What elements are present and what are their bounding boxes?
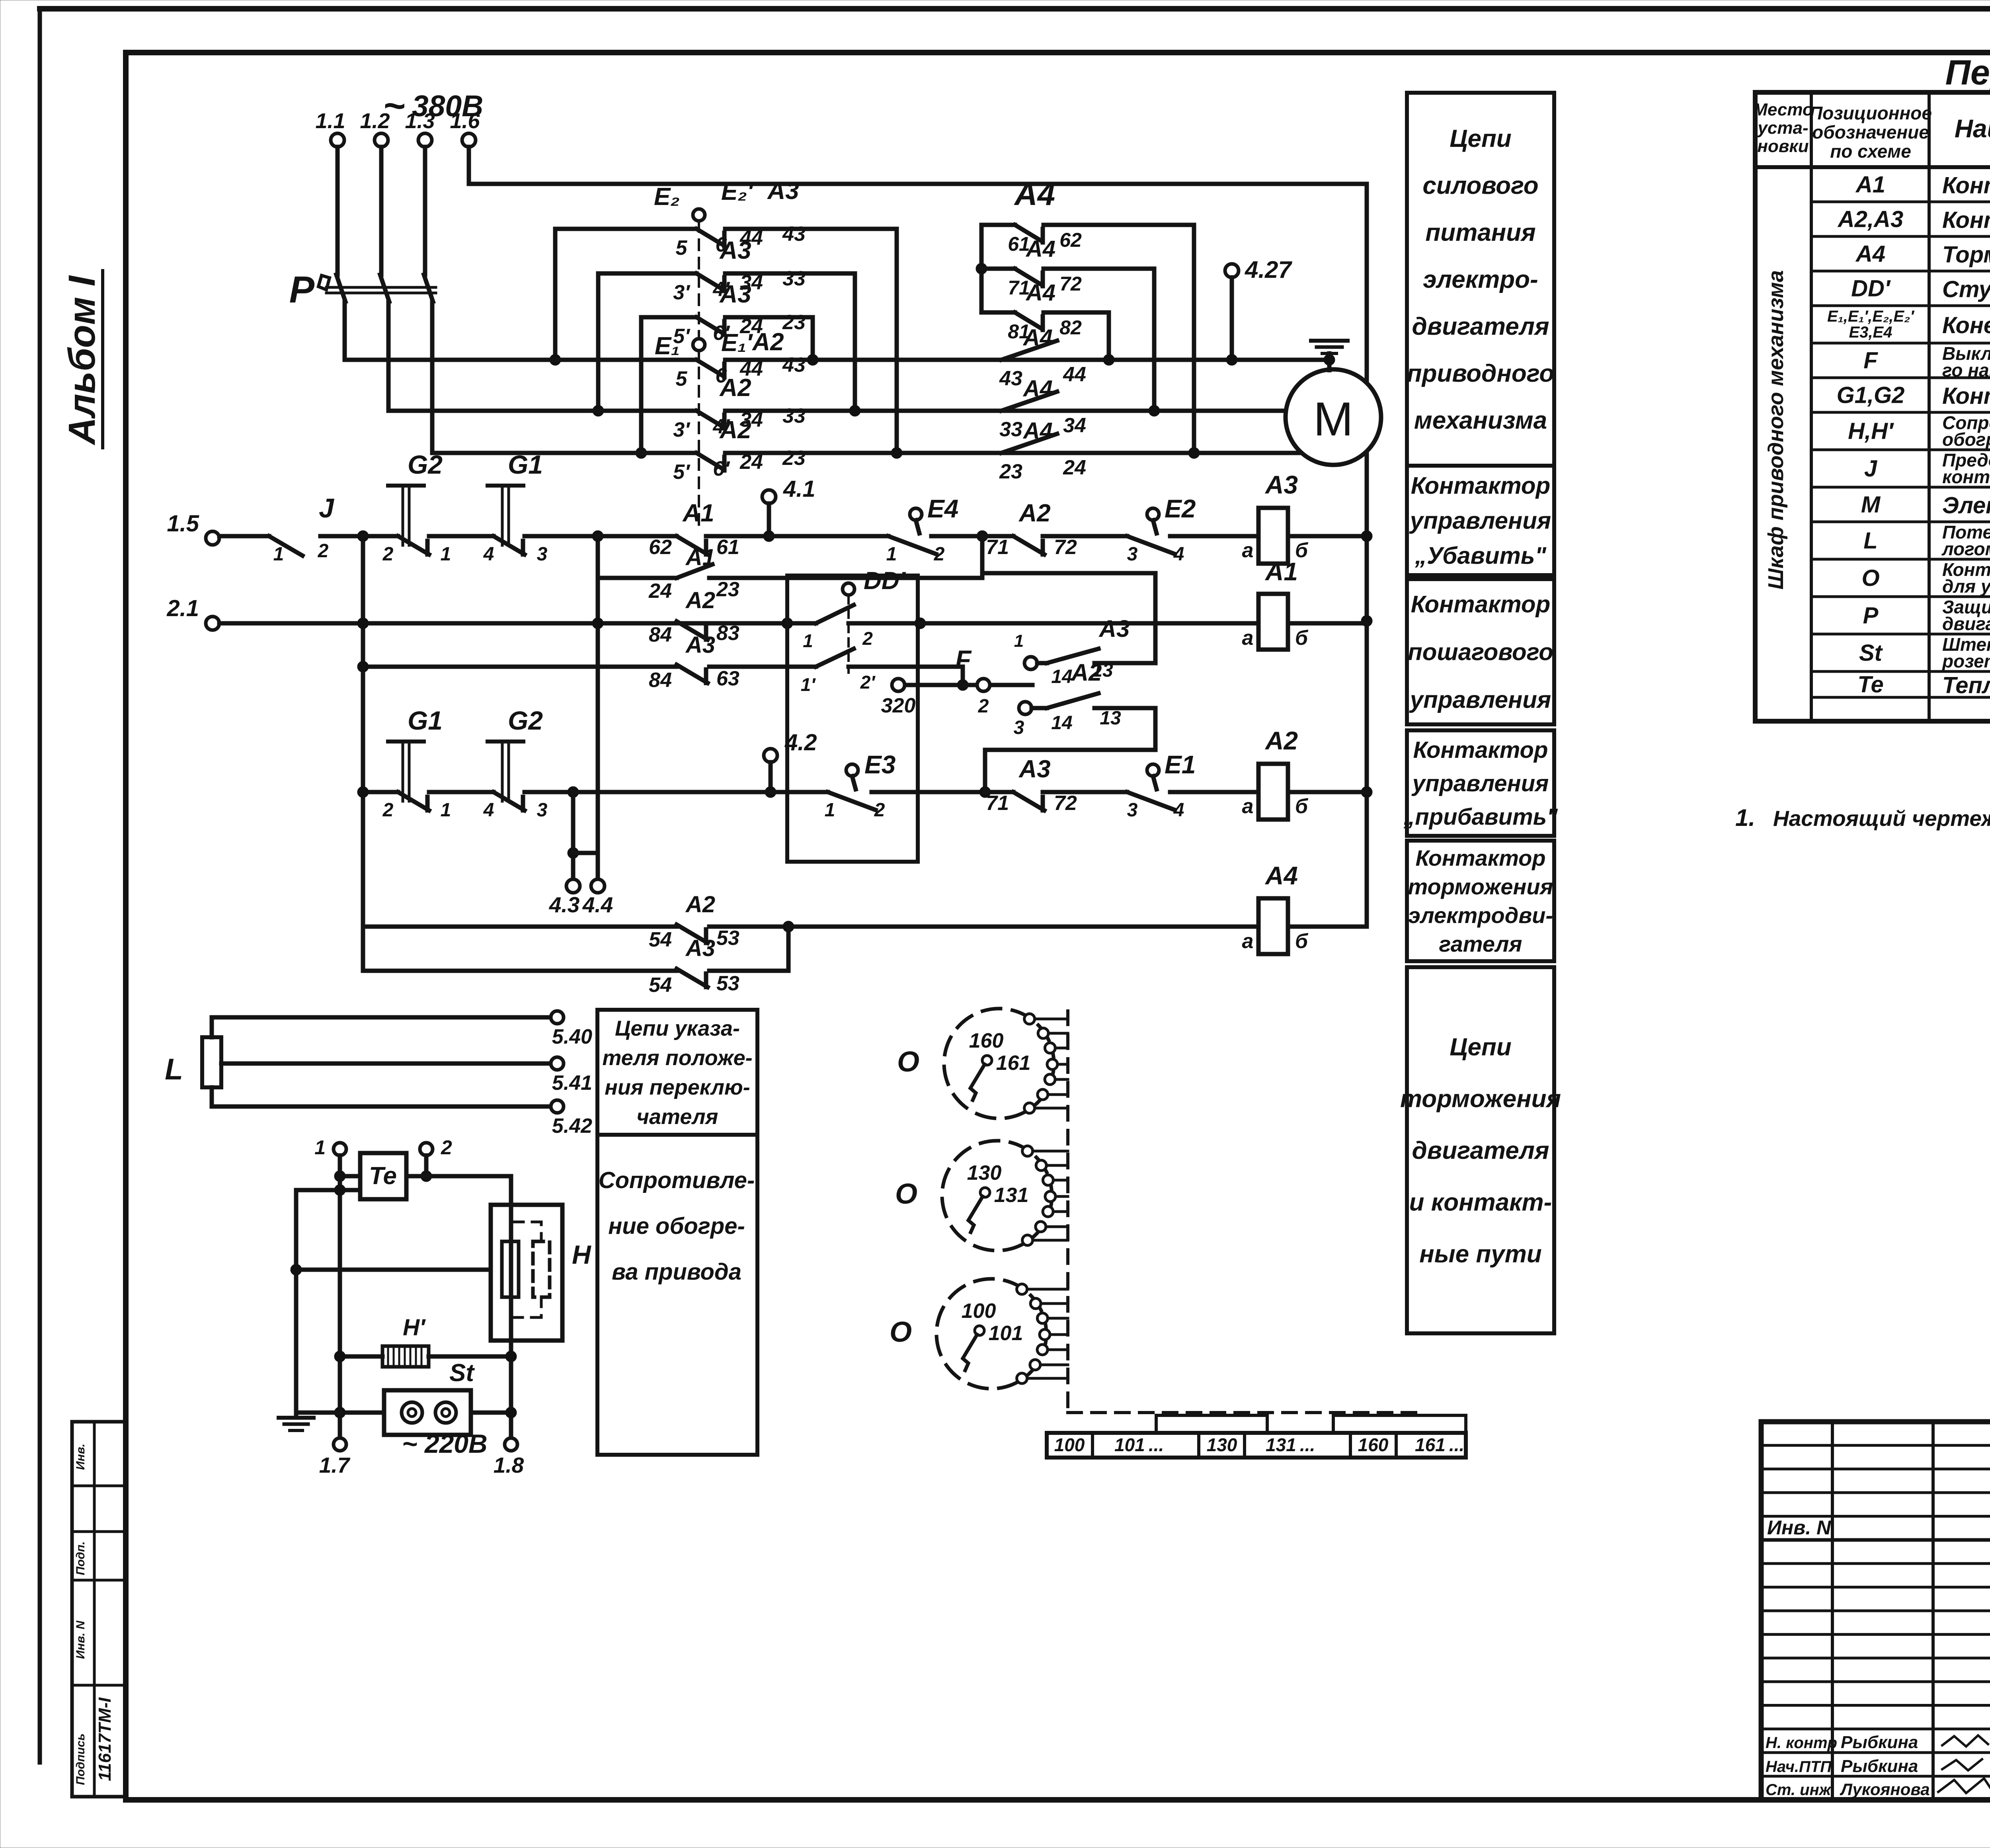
svg-text:24: 24 xyxy=(1063,456,1086,479)
svg-text:3: 3 xyxy=(1127,800,1138,821)
title block texts top xyxy=(1767,1443,1990,1588)
svg-text:F: F xyxy=(955,645,972,674)
svg-text:24: 24 xyxy=(739,451,763,474)
svg-text:Инв. N: Инв. N xyxy=(1767,1516,1831,1539)
svg-text:Ступенчатый контакт: Ступенчатый контакт xyxy=(1942,277,1990,302)
svg-text:1: 1 xyxy=(825,800,835,821)
svg-text:DD′: DD′ xyxy=(864,567,907,595)
svg-text:100: 100 xyxy=(1054,1434,1085,1455)
motor M xyxy=(1286,353,1381,465)
svg-text:б: б xyxy=(1295,795,1309,818)
svg-text:13: 13 xyxy=(1100,708,1121,729)
svg-text:А2: А2 xyxy=(685,892,715,917)
svg-text:А2: А2 xyxy=(1071,659,1102,686)
svg-text:для управления: для управления xyxy=(1942,576,1990,597)
svg-text:62: 62 xyxy=(1059,229,1082,251)
svg-text:43: 43 xyxy=(999,367,1022,390)
svg-text:двигателя: двигателя xyxy=(1412,313,1549,340)
svg-text:а: а xyxy=(1242,795,1254,818)
svg-text:Е₁′: Е₁′ xyxy=(721,329,753,357)
node 4.1 xyxy=(762,476,816,542)
note box brake circuits xyxy=(1400,967,1561,1333)
svg-text:4.1: 4.1 xyxy=(783,476,816,502)
svg-text:двигателя: двигателя xyxy=(1412,1137,1549,1165)
svg-text:О: О xyxy=(1861,565,1879,591)
svg-text:4.2: 4.2 xyxy=(784,730,817,755)
svg-text:J: J xyxy=(319,493,334,523)
svg-text:А1: А1 xyxy=(1264,557,1298,586)
bus vertical left1 xyxy=(357,531,369,971)
svg-text:54: 54 xyxy=(649,928,672,951)
svg-text:А2: А2 xyxy=(1018,500,1050,527)
contact DD' 1-2 xyxy=(787,567,920,673)
potentiometer L xyxy=(165,1037,221,1087)
left margin stamp boxes xyxy=(72,1422,126,1797)
node 1.8 xyxy=(494,1438,524,1477)
svg-text:83: 83 xyxy=(716,622,739,645)
svg-text:101 ...: 101 ... xyxy=(1114,1434,1164,1455)
svg-text:1: 1 xyxy=(886,544,897,565)
svg-text:Н: Н xyxy=(572,1240,591,1269)
svg-text:Ст. инж: Ст. инж xyxy=(1766,1781,1832,1799)
album label xyxy=(61,271,103,448)
svg-text:72: 72 xyxy=(1054,792,1077,815)
svg-text:2: 2 xyxy=(382,544,394,565)
svg-text:Элентродвигатель: Элентродвигатель xyxy=(1942,493,1990,519)
svg-text:Контакторы двигателя: Контакторы двигателя xyxy=(1942,207,1990,233)
svg-text:Н. контр: Н. контр xyxy=(1766,1734,1837,1752)
svg-text:2: 2 xyxy=(874,800,885,821)
svg-text:71: 71 xyxy=(986,792,1009,815)
svg-text:3′: 3′ xyxy=(673,418,691,441)
svg-text:100: 100 xyxy=(962,1300,996,1323)
node 4.2 xyxy=(764,730,817,798)
rotary switch O-160 xyxy=(897,1009,1068,1118)
table row 3 xyxy=(1855,241,1990,268)
svg-text:Цепи: Цепи xyxy=(1450,125,1511,152)
svg-text:Н,Н′: Н,Н′ xyxy=(1848,418,1894,444)
contact A2 84-83 xyxy=(649,587,739,646)
note box position indicator xyxy=(597,1010,757,1135)
svg-text:3: 3 xyxy=(537,544,548,565)
note 1 xyxy=(1735,804,1990,831)
phase bus L1 xyxy=(345,328,1329,390)
svg-text:G1,G2: G1,G2 xyxy=(1837,382,1905,408)
wire row1 to bus L3 xyxy=(891,229,902,459)
svg-text:St: St xyxy=(449,1359,475,1387)
svg-text:Рыбкина: Рыбкина xyxy=(1841,1733,1918,1752)
svg-text:торможения: торможения xyxy=(1400,1085,1561,1113)
table row 6 xyxy=(1863,343,1990,381)
svg-text:11617ТМ-I: 11617ТМ-I xyxy=(95,1697,115,1781)
table title xyxy=(1945,53,1990,92)
svg-text:питания: питания xyxy=(1425,219,1535,246)
svg-text:5.40: 5.40 xyxy=(552,1025,592,1048)
svg-text:1′: 1′ xyxy=(801,674,816,695)
svg-text:Е3: Е3 xyxy=(864,750,895,779)
svg-text:А1: А1 xyxy=(685,544,715,570)
node 1.2 xyxy=(360,109,390,411)
svg-text:St: St xyxy=(1859,640,1883,666)
svg-text:Позиционное: Позиционное xyxy=(1809,103,1932,123)
table row 8 xyxy=(1848,412,1990,450)
svg-text:3: 3 xyxy=(537,800,548,821)
svg-text:44: 44 xyxy=(1063,363,1086,386)
coil A3 xyxy=(1232,470,1367,564)
svg-text:160: 160 xyxy=(1358,1434,1389,1455)
svg-text:1: 1 xyxy=(314,1136,326,1159)
svg-text:84: 84 xyxy=(649,669,672,692)
svg-text:34: 34 xyxy=(1063,414,1086,437)
wire row3 to bus L1 xyxy=(807,317,818,365)
svg-text:1.5: 1.5 xyxy=(167,511,199,537)
svg-text:механизма: механизма xyxy=(1414,407,1547,434)
table row 12 xyxy=(1861,559,1990,597)
svg-text:Е₂: Е₂ xyxy=(654,183,680,211)
wire bracket v2 xyxy=(593,273,604,416)
svg-text:пошагового: пошагового xyxy=(1408,639,1553,665)
svg-text:380В: 380В xyxy=(412,89,483,123)
svg-text:теля положе-: теля положе- xyxy=(602,1046,752,1070)
node 2.1 xyxy=(166,595,219,630)
svg-text:Подпись: Подпись xyxy=(74,1733,87,1785)
svg-text:L: L xyxy=(165,1052,183,1086)
rotary switch O-130 xyxy=(895,1141,1068,1251)
svg-text:4.27: 4.27 xyxy=(1245,256,1292,283)
svg-text:53: 53 xyxy=(716,927,739,950)
svg-text:А3: А3 xyxy=(767,177,799,205)
svg-text:Цепи: Цепи xyxy=(1450,1034,1511,1061)
svg-text:А3: А3 xyxy=(1098,615,1130,642)
svg-text:1: 1 xyxy=(441,544,451,565)
svg-text:и контакт-: и контакт- xyxy=(1409,1189,1552,1216)
svg-text:А3: А3 xyxy=(1264,470,1298,499)
wire H row xyxy=(291,1264,491,1275)
svg-text:J: J xyxy=(1864,456,1878,482)
svg-text:Инв.: Инв. xyxy=(74,1444,87,1470)
node 1 Te xyxy=(314,1136,346,1438)
table row 7 xyxy=(1837,382,1990,409)
ground above motor xyxy=(1311,341,1348,353)
table row 9 xyxy=(1864,450,1990,487)
node 4.4 stem xyxy=(582,879,613,917)
svg-text:Е3,Е4: Е3,Е4 xyxy=(1849,324,1892,341)
svg-text:Место: Место xyxy=(1753,100,1813,119)
svg-text:1: 1 xyxy=(441,800,451,821)
svg-text:101: 101 xyxy=(989,1322,1023,1345)
pushbutton G2 row3 xyxy=(483,706,573,821)
svg-text:43: 43 xyxy=(782,353,806,377)
node 4.27 xyxy=(1225,256,1292,365)
svg-text:Цепи указа-: Цепи указа- xyxy=(615,1017,740,1040)
svg-text:управления: управления xyxy=(1409,507,1551,534)
sub row A3 84-63 / DD' 1'-2' xyxy=(357,632,963,695)
svg-text:управления: управления xyxy=(1409,687,1551,713)
wire row2 to bus L2 xyxy=(849,273,860,416)
note box contactor increase xyxy=(1403,730,1558,836)
svg-text:Контактор: Контактор xyxy=(1411,472,1550,499)
title block signatures xyxy=(1766,1733,1990,1799)
svg-text:2: 2 xyxy=(862,628,873,649)
ground bottom xyxy=(279,1413,340,1430)
node 1.7 xyxy=(319,1438,351,1477)
svg-text:Конечный выключатель: Конечный выключатель xyxy=(1942,312,1990,338)
svg-text:14: 14 xyxy=(1051,666,1072,687)
svg-text:14: 14 xyxy=(1051,712,1072,734)
svg-text:А2: А2 xyxy=(1264,726,1298,755)
svg-text:О: О xyxy=(897,1046,919,1078)
row3 wire to E3 xyxy=(573,790,828,794)
svg-text:ные пути: ные пути xyxy=(1419,1241,1541,1268)
svg-text:54: 54 xyxy=(649,974,672,997)
svg-text:4: 4 xyxy=(483,544,494,565)
svg-text:~ 220В: ~ 220В xyxy=(402,1429,488,1458)
svg-text:чателя: чателя xyxy=(637,1105,718,1129)
svg-text:б: б xyxy=(1295,626,1309,650)
svg-text:А1: А1 xyxy=(682,500,714,527)
svg-text:23: 23 xyxy=(716,578,739,601)
svg-text:Е₁,Е₁′,Е₂,Е₂′: Е₁,Е₁′,Е₂,Е₂′ xyxy=(1827,308,1915,325)
svg-text:А3: А3 xyxy=(685,632,715,658)
svg-text:силового: силового xyxy=(1422,172,1538,199)
table row 10 xyxy=(1861,492,1990,519)
svg-text:160: 160 xyxy=(969,1029,1004,1052)
svg-text:G2: G2 xyxy=(508,706,543,735)
svg-text:2: 2 xyxy=(382,800,394,821)
svg-text:131 ...: 131 ... xyxy=(1266,1434,1315,1455)
wire bracket v3 xyxy=(636,317,647,459)
svg-text:5.41: 5.41 xyxy=(552,1071,592,1095)
svg-text:43: 43 xyxy=(782,222,806,246)
svg-text:А2: А2 xyxy=(685,587,715,613)
node 2 Te xyxy=(420,1136,452,1182)
table row 1 xyxy=(1855,172,1990,199)
svg-text:2′: 2′ xyxy=(860,672,876,693)
limit switch E2 E2' xyxy=(654,178,754,529)
svg-text:1.1: 1.1 xyxy=(315,109,345,133)
svg-text:Сопротивле-: Сопротивле- xyxy=(599,1167,755,1193)
svg-text:Шкаф приводного механизма: Шкаф приводного механизма xyxy=(1764,270,1788,589)
svg-text:управления: управления xyxy=(1411,771,1549,796)
table row 15 xyxy=(1857,672,1990,699)
svg-text:А3: А3 xyxy=(1018,755,1050,783)
svg-text:5: 5 xyxy=(676,367,688,390)
rotary switch O-100 xyxy=(890,1279,1068,1389)
svg-text:А2: А2 xyxy=(751,328,784,356)
svg-text:розетка: розетка xyxy=(1941,651,1990,671)
note box step contactor xyxy=(1407,579,1554,724)
node 1.6 xyxy=(450,109,480,147)
svg-text:72: 72 xyxy=(1054,536,1077,559)
svg-text:Тормозной контактор: Тормозной контактор xyxy=(1942,242,1990,268)
contact A4 61-62 xyxy=(976,225,1200,459)
svg-text:DD′: DD′ xyxy=(1851,276,1891,302)
svg-text:Те: Те xyxy=(1857,672,1883,698)
note box power circuits xyxy=(1407,93,1554,466)
svg-text:161 ...: 161 ... xyxy=(1415,1434,1464,1455)
socket St xyxy=(334,1359,517,1435)
table headers xyxy=(1753,100,1990,162)
svg-text:1: 1 xyxy=(803,630,813,651)
limit switch E1 E1' xyxy=(655,329,753,360)
svg-text:Е1: Е1 xyxy=(1165,750,1196,779)
pushbutton G1 row3 xyxy=(357,706,494,821)
wire 5.40 xyxy=(212,1011,592,1048)
svg-text:б: б xyxy=(1295,930,1309,953)
coil A2 xyxy=(1232,726,1367,820)
wire left branch xyxy=(296,1185,360,1413)
svg-text:Контактор: Контактор xyxy=(1413,737,1548,763)
phase bus L2 xyxy=(388,374,1286,441)
svg-text:А4: А4 xyxy=(1022,376,1053,402)
heater block H xyxy=(491,1205,591,1341)
svg-text:контакт: контакт xyxy=(1942,466,1990,487)
svg-text:63: 63 xyxy=(716,667,739,690)
svg-text:24: 24 xyxy=(648,580,672,603)
svg-text:логометра: логометра xyxy=(1941,539,1990,559)
apparatus table grid xyxy=(1755,92,1990,721)
svg-text:О: О xyxy=(895,1178,917,1210)
contact A3 71-72 row3 xyxy=(985,755,1127,815)
contact A3 14-13 xyxy=(982,573,1155,687)
svg-text:Настоящий чертеж выполнен н: Настоящий чертеж выполнен на основании ч… xyxy=(1773,806,1990,831)
svg-text:2: 2 xyxy=(934,544,945,565)
svg-text:Альбом I: Альбом I xyxy=(61,275,103,445)
svg-text:F: F xyxy=(1863,348,1878,374)
svg-text:Контакт управления: Контакт управления xyxy=(1942,383,1990,409)
svg-text:А4: А4 xyxy=(1855,241,1885,267)
contact A2 71-72 row1 xyxy=(982,500,1127,559)
label 220V xyxy=(402,1429,488,1458)
svg-text:М: М xyxy=(1861,492,1881,518)
svg-text:161: 161 xyxy=(996,1052,1031,1075)
contact A3 row2 3'-4' 34-33 xyxy=(598,237,855,304)
svg-text:по схеме: по схеме xyxy=(1830,141,1911,162)
wire 5.42 xyxy=(212,1087,592,1138)
note box contactor decrease xyxy=(1407,466,1554,575)
svg-text:Контактор управления: Контактор управления xyxy=(1942,173,1990,199)
svg-text:ва привода: ва привода xyxy=(612,1259,741,1285)
breaker P xyxy=(289,269,436,311)
limit switch E3 xyxy=(825,750,985,821)
svg-text:84: 84 xyxy=(649,623,672,646)
table row 4 xyxy=(1851,276,1990,302)
svg-text:5: 5 xyxy=(676,236,688,260)
coil A1 xyxy=(1242,557,1367,650)
terminal strip xyxy=(1047,1415,1466,1458)
svg-text:А4: А4 xyxy=(1022,418,1053,444)
node 1.1 xyxy=(315,109,345,360)
node DD out xyxy=(915,618,1258,629)
svg-text:71: 71 xyxy=(986,536,1009,559)
svg-text:53: 53 xyxy=(716,972,739,995)
svg-text:А4: А4 xyxy=(1022,325,1053,351)
svg-text:Е₁: Е₁ xyxy=(655,332,680,360)
phase bus L3 xyxy=(432,416,1367,484)
svg-text:2: 2 xyxy=(441,1136,452,1159)
limit switch E1 row3 xyxy=(1127,750,1232,821)
svg-text:А2: А2 xyxy=(719,416,751,444)
svg-text:320: 320 xyxy=(881,694,916,717)
svg-text:А1: А1 xyxy=(1855,172,1885,198)
pushbutton G1 row1 xyxy=(483,450,598,565)
svg-text:А3: А3 xyxy=(685,935,715,961)
svg-text:23: 23 xyxy=(999,460,1022,483)
dashed collector bus xyxy=(1068,1011,1418,1413)
table row 2 xyxy=(1837,207,1990,233)
svg-text:„прибавить": „прибавить" xyxy=(1403,804,1558,830)
contact A2 14-13 xyxy=(985,659,1155,792)
svg-text:Лукоянова: Лукоянова xyxy=(1840,1780,1930,1799)
svg-text:1.: 1. xyxy=(1735,804,1755,831)
svg-text:4.3: 4.3 xyxy=(549,892,579,917)
svg-text:А3: А3 xyxy=(719,237,751,264)
contact J xyxy=(219,493,363,565)
node row3 xyxy=(979,786,991,798)
svg-text:4: 4 xyxy=(1173,544,1184,565)
svg-text:уста-: уста- xyxy=(1757,118,1808,138)
svg-text:А2,А3: А2,А3 xyxy=(1837,207,1903,232)
heater H' xyxy=(334,1315,517,1367)
svg-text:ние обогре-: ние обогре- xyxy=(608,1213,745,1239)
table row 14 xyxy=(1859,634,1990,671)
limit switch E2 row1 xyxy=(1127,494,1232,565)
svg-text:33: 33 xyxy=(782,404,806,427)
svg-text:62: 62 xyxy=(649,536,672,559)
svg-text:гателя: гателя xyxy=(1439,931,1522,956)
svg-text:двигателя: двигателя xyxy=(1942,613,1990,634)
svg-text:82: 82 xyxy=(1059,316,1082,339)
svg-text:61: 61 xyxy=(716,536,739,559)
svg-text:Е₂′: Е₂′ xyxy=(721,178,754,205)
svg-text:131: 131 xyxy=(994,1184,1029,1207)
svg-text:А3: А3 xyxy=(719,281,751,308)
node 4.3 stem xyxy=(549,786,598,917)
svg-text:L: L xyxy=(1863,528,1877,554)
brake coil row A4 xyxy=(363,892,1258,951)
node 1.5 xyxy=(167,511,219,545)
svg-text:приводного: приводного xyxy=(1407,360,1554,387)
svg-text:130: 130 xyxy=(1207,1434,1237,1455)
svg-text:130: 130 xyxy=(967,1161,1002,1185)
svg-text:23: 23 xyxy=(782,447,806,470)
svg-text:Р: Р xyxy=(289,269,315,311)
wire Te left xyxy=(334,1171,360,1182)
contact A4 33-34 xyxy=(999,376,1086,441)
limit switch E4 xyxy=(769,494,982,565)
svg-text:Подп.: Подп. xyxy=(74,1541,87,1575)
svg-text:Рыбкина: Рыбкина xyxy=(1841,1756,1918,1776)
wire 5.41 xyxy=(221,1057,592,1095)
node 1.3 xyxy=(405,109,435,453)
svg-text:Перечень аппаратуры: Перечень аппаратуры xyxy=(1945,53,1990,92)
svg-text:G1: G1 xyxy=(508,450,543,479)
svg-text:1: 1 xyxy=(1014,631,1024,651)
svg-text:4: 4 xyxy=(1173,800,1184,821)
svg-text:Н′: Н′ xyxy=(403,1315,426,1341)
svg-text:новки: новки xyxy=(1757,137,1809,156)
svg-text:А4: А4 xyxy=(1264,861,1298,890)
thermal protection Te xyxy=(360,1153,406,1199)
sub row A3 54-53 xyxy=(363,927,788,997)
wire Te right to H xyxy=(406,1176,511,1438)
svg-text:Контактор: Контактор xyxy=(1415,845,1545,870)
svg-text:4.4: 4.4 xyxy=(582,892,613,917)
wire feed 1.6 to motor enclosure xyxy=(469,147,1367,453)
svg-text:6′: 6′ xyxy=(713,457,730,480)
svg-text:Те: Те xyxy=(369,1162,397,1190)
svg-text:а: а xyxy=(1242,539,1254,562)
